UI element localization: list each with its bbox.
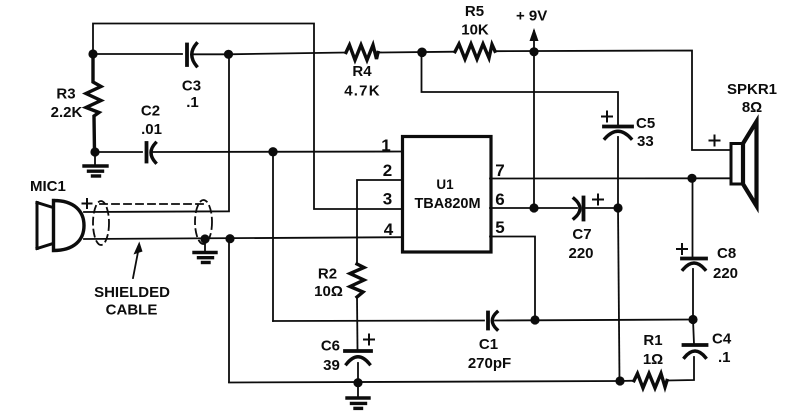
node F cable riser	[225, 234, 234, 243]
svg-text:.1: .1	[718, 349, 731, 366]
node N speaker return	[687, 174, 696, 183]
ground under C6	[347, 384, 369, 409]
svg-text:U1: U1	[436, 177, 454, 192]
IC U1 box	[403, 137, 492, 253]
wire pin 1	[153, 151, 402, 154]
node I pin6 supply	[529, 203, 538, 212]
wire node to C1 rail vertical	[272, 152, 274, 321]
svg-text:.1: .1	[186, 94, 199, 111]
capacitor C8	[682, 259, 706, 270]
svg-text:SHIELDED: SHIELDED	[94, 284, 170, 301]
node K pin5 C1	[530, 315, 539, 324]
svg-text:2.2K: 2.2K	[51, 104, 83, 121]
capacitor C3	[187, 44, 197, 67]
node A rail left	[88, 49, 97, 58]
wire bottom rail node to R1	[620, 380, 634, 382]
wire pin 6 to C7	[490, 207, 577, 209]
svg-text:.01: .01	[141, 121, 162, 138]
capacitor C5	[604, 127, 632, 139]
wire pin 2 to R2	[357, 180, 402, 264]
svg-text:5: 5	[495, 218, 504, 237]
speaker SPKR1	[731, 122, 757, 207]
node H rail 9V	[529, 47, 538, 56]
wire +9V branch to C5	[422, 52, 619, 126]
svg-text:C6: C6	[321, 338, 340, 355]
wire pin6 node down to bottom rail node	[618, 208, 620, 381]
speaker plus sign	[710, 136, 720, 146]
wire rail node to R4	[229, 53, 347, 55]
svg-text:10K: 10K	[461, 22, 489, 39]
svg-text:R4: R4	[352, 63, 372, 80]
node G rail C5 branch	[417, 48, 427, 58]
wire R5 to top right corner down to speaker plus	[495, 51, 731, 151]
wire shield node riser to bottom rail	[228, 239, 230, 382]
svg-text:SPKR1: SPKR1	[727, 81, 777, 98]
+9V arrow	[530, 28, 539, 41]
svg-text:TBA820M: TBA820M	[414, 196, 480, 212]
wire pin 4 mic return	[84, 237, 402, 239]
wire C1 rail right	[495, 320, 693, 321]
wire C7 right plate to node	[586, 207, 618, 209]
svg-text:C3: C3	[182, 78, 201, 95]
svg-text:2: 2	[383, 161, 392, 180]
svg-text:33: 33	[637, 133, 654, 150]
svg-text:4: 4	[384, 220, 394, 239]
resistor R3	[86, 54, 101, 152]
svg-text:R5: R5	[465, 3, 484, 20]
wire pin 5	[490, 237, 535, 321]
svg-text:C1: C1	[479, 336, 498, 353]
svg-text:CABLE: CABLE	[106, 302, 158, 319]
C8 plus sign	[677, 244, 687, 254]
svg-text:C2: C2	[141, 103, 160, 120]
svg-text:C7: C7	[572, 226, 591, 243]
svg-text:4.7K: 4.7K	[344, 83, 381, 100]
wire C8 top to speaker node	[692, 179, 694, 258]
wire C2 node to C2	[95, 151, 142, 153]
node J C7 right	[613, 203, 622, 212]
wire C6 to bottom node	[357, 363, 359, 384]
svg-text:8Ω: 8Ω	[742, 99, 762, 116]
svg-text:R3: R3	[56, 86, 75, 103]
microphone MIC1	[37, 201, 84, 251]
svg-text:MIC1: MIC1	[30, 178, 66, 195]
node O C6 bottom	[353, 378, 362, 387]
svg-text:6: 6	[495, 190, 504, 209]
node B C2 ground	[90, 147, 99, 156]
resistor R4	[346, 45, 378, 60]
capacitor C2	[147, 143, 156, 163]
capacitor C1	[488, 312, 497, 330]
svg-text:39: 39	[323, 357, 340, 374]
wire R1 to C4 bottom	[667, 357, 694, 381]
resistor R2	[350, 264, 364, 297]
wire pin 7 to speaker	[490, 177, 731, 179]
C7 plus sign	[593, 195, 603, 205]
wire R4 to R5 with node	[378, 51, 455, 54]
svg-text:220: 220	[568, 245, 593, 262]
svg-text:1Ω: 1Ω	[643, 351, 663, 368]
resistor R5	[455, 44, 495, 59]
wire C4 top to node	[693, 320, 694, 345]
ground under R3 C2 node	[84, 152, 107, 176]
wire C5 bottom to pin6 node	[617, 137, 619, 208]
svg-text:270pF: 270pF	[468, 355, 511, 372]
node E shield ground	[200, 234, 209, 243]
svg-text:C5: C5	[636, 115, 655, 132]
wire node R3 top to C3 left plate	[93, 53, 182, 55]
svg-text:220: 220	[713, 265, 738, 282]
node C C3 right	[224, 50, 233, 59]
C5 plus sign	[602, 112, 612, 122]
capacitor C4	[684, 345, 707, 358]
svg-text:C8: C8	[717, 245, 736, 262]
svg-text:3: 3	[383, 190, 392, 209]
wire top net: node R3 top up, across, down to pin 3	[93, 24, 402, 210]
svg-text:10Ω: 10Ω	[314, 283, 343, 300]
wire C1 rail left	[273, 320, 484, 323]
wire C3 right plate to rail node	[194, 53, 229, 55]
wire node to C8 bottom	[692, 269, 694, 320]
wire +9V vertical line down to pin 6	[533, 31, 535, 208]
mic plus sign	[83, 199, 92, 208]
svg-text:R2: R2	[318, 266, 337, 283]
svg-text:7: 7	[495, 161, 504, 180]
capacitor C7	[574, 198, 584, 220]
node L C8 C4	[688, 315, 697, 324]
capacitor C6	[345, 351, 371, 364]
wire bottom rail	[229, 381, 620, 383]
svg-text:C4: C4	[712, 331, 732, 348]
svg-text:1: 1	[381, 136, 390, 155]
wire mic plus through cable up to rail node	[84, 54, 229, 212]
wire R2 to C6	[356, 297, 359, 349]
C6 plus sign	[364, 335, 374, 345]
svg-text:R1: R1	[643, 332, 662, 349]
shielded cable pointer arrow	[133, 252, 138, 278]
resistor R1	[634, 374, 667, 389]
shielded cable dashes	[93, 200, 212, 245]
svg-text:+ 9V: + 9V	[516, 8, 547, 25]
node D pin1 branch	[268, 147, 277, 156]
ground shield	[194, 239, 216, 263]
node M bottom rail R1	[615, 376, 624, 385]
